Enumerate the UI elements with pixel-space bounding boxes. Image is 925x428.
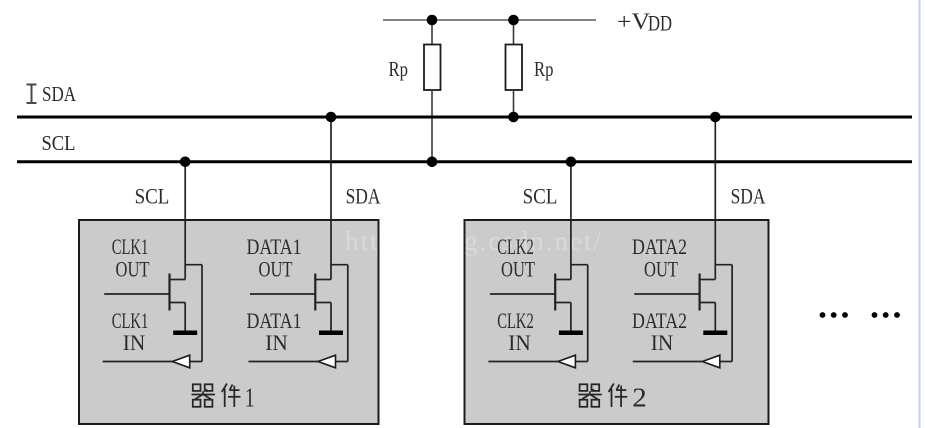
SCL bus line: [17, 160, 912, 163]
wire input branch DATA1: [249, 265, 348, 362]
svg-text:SDA: SDA: [731, 184, 766, 209]
ground DATA2: [703, 331, 727, 336]
svg-text:OUT: OUT: [259, 257, 293, 282]
ground CLK1: [173, 331, 197, 336]
wire SCL to device1: [184, 162, 186, 266]
junction dot SDA/dev1: [326, 112, 337, 123]
input buffer CLK2: [558, 355, 576, 368]
device box 器件2: [465, 220, 769, 424]
resistor Rp (right): [513, 20, 515, 45]
svg-text:IN: IN: [265, 330, 288, 355]
junction dot SCL/dev2: [566, 157, 577, 168]
input buffer DATA1: [318, 355, 336, 368]
wire SDA to device2: [714, 117, 716, 266]
wire SDA to device1: [330, 117, 332, 266]
device box 器件1: [79, 220, 379, 424]
junction dot SDA/dev2: [710, 112, 721, 123]
svg-text:1: 1: [245, 383, 255, 413]
junction dot R2-SDA: [508, 112, 519, 123]
svg-text:+V: +V: [617, 9, 650, 34]
right page border: [918, 0, 920, 428]
svg-text:Rp: Rp: [389, 57, 409, 81]
ellipsis dots right: [820, 312, 900, 318]
svg-text:OUT: OUT: [116, 257, 150, 282]
device label 器件1: [192, 384, 216, 407]
input buffer CLK1: [172, 355, 190, 368]
resistor Rp (left): [431, 20, 433, 45]
wire input branch CLK1: [103, 265, 202, 362]
junction dot R1-SCL: [427, 157, 438, 168]
svg-text:SCL: SCL: [42, 131, 76, 155]
svg-text:SDA: SDA: [42, 82, 77, 106]
wire input branch DATA2: [633, 265, 732, 362]
svg-text:IN: IN: [123, 330, 146, 355]
transistor Q2 DATA1: [250, 265, 331, 331]
svg-text:SCL: SCL: [523, 184, 558, 209]
wire input branch CLK2: [488, 265, 587, 362]
+VDD rail: [383, 19, 596, 21]
device label 器件2: [578, 384, 602, 407]
svg-text:IN: IN: [508, 330, 531, 355]
svg-text:2: 2: [632, 383, 647, 413]
wire SCL to device2: [570, 162, 572, 266]
SDA bus line: [17, 116, 912, 119]
svg-text:Rp: Rp: [534, 57, 554, 81]
svg-text:SCL: SCL: [135, 184, 170, 209]
svg-text:CLK1: CLK1: [112, 234, 149, 259]
junction dot SCL/dev1: [180, 157, 191, 168]
junction dot VDD-R1: [427, 15, 438, 26]
svg-text:IN: IN: [651, 330, 674, 355]
svg-text:SDA: SDA: [346, 184, 381, 209]
svg-text:http://blog.csdn.net/: http://blog.csdn.net/: [345, 226, 603, 256]
svg-text:OUT: OUT: [644, 257, 678, 282]
svg-text:DATA2: DATA2: [632, 234, 687, 259]
ground CLK2: [559, 331, 583, 336]
ground DATA1: [319, 331, 343, 336]
text cursor I-beam: [27, 85, 37, 104]
svg-text:DATA1: DATA1: [247, 234, 302, 259]
transistor Q1 CLK1: [104, 265, 185, 331]
svg-text:DD: DD: [648, 11, 672, 36]
transistor Q3 CLK2: [490, 265, 571, 331]
svg-text:OUT: OUT: [501, 257, 535, 282]
input buffer DATA2: [702, 355, 720, 368]
transistor Q4 DATA2: [634, 265, 715, 331]
junction dot VDD-R2: [508, 15, 519, 26]
svg-text:CLK2: CLK2: [497, 234, 534, 259]
